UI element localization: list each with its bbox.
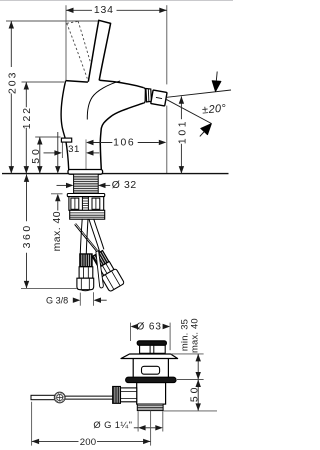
faucet centreline extension (x=86): [85, 139, 87, 173]
tailpiece thread G1 1/4: [137, 404, 163, 411]
dim 101: [177, 96, 188, 173]
waste valve body: [137, 383, 166, 405]
svg-text:203: 203: [7, 71, 18, 94]
dim 31: [44, 144, 100, 156]
pop-up pull rod: [75, 223, 104, 288]
hose coupler block: [70, 210, 105, 219]
svg-text:50: 50: [189, 385, 200, 403]
hose 1 hex nut: [79, 267, 93, 278]
washer plate: [67, 194, 104, 197]
spout top edge: [99, 80, 143, 87]
swivel arrow upper: [212, 72, 221, 92]
top edge artifact: [0, 0, 233, 2]
waste plug body: [140, 345, 166, 353]
svg-text:106: 106: [113, 137, 135, 148]
dim max. 40 (deck thickness): [51, 194, 63, 252]
svg-text:G 3/8: G 3/8: [46, 296, 68, 306]
extension line top of dim 203 (y=21): [6, 20, 98, 22]
rod knob: [54, 392, 65, 403]
rod port on valve: [121, 388, 137, 402]
dim 203: [7, 21, 18, 174]
dim max. 40 upper line with deck arrow (x=57.8): [55, 132, 60, 174]
escutcheon base plate: [68, 170, 103, 175]
label ±20°: [202, 102, 227, 116]
threaded shank: [74, 174, 99, 193]
hose 1 crimp sleeve: [80, 254, 93, 267]
dim min.35 / max.40: [171, 318, 204, 379]
overflow window: [142, 366, 160, 374]
supply hose 1 tube: [80, 219, 88, 254]
waste neck: [133, 359, 168, 378]
extension line left of dim 134 (x=66): [65, 5, 67, 80]
swivel axis line upper: [167, 90, 231, 97]
dim 134: [66, 5, 167, 16]
supply hose 2 tube: [89, 219, 104, 252]
hose 2 connector (tilted): [90, 249, 125, 292]
dim G 3/8 (hose thread): [46, 292, 107, 306]
dim 50: [31, 137, 43, 174]
dim 122: [22, 82, 33, 174]
mounting nut: [69, 197, 104, 211]
spout underside / column right edge: [100, 103, 143, 169]
aerator block: [151, 90, 167, 106]
extension line top of dim 50 (y=137): [35, 136, 60, 138]
swivel arrow lower: [200, 124, 212, 137]
svg-text:101: 101: [177, 119, 188, 144]
svg-text:122: 122: [22, 106, 33, 129]
spout joint ring: [146, 89, 152, 102]
dim Ø G 1 1/4: [93, 411, 162, 431]
svg-text:max. 40: max. 40: [188, 318, 199, 353]
svg-text:±20°: ±20°: [202, 102, 227, 116]
waste plug cap: [137, 341, 166, 345]
svg-text:31: 31: [68, 144, 80, 155]
body-spout crease: [87, 81, 120, 120]
svg-text:Ø 32: Ø 32: [112, 180, 137, 191]
handle lever: [88, 20, 110, 81]
outlet ledge on column: [61, 138, 71, 142]
faucet body top edge: [66, 81, 88, 83]
sealing collar: [126, 377, 177, 382]
dim 106: [86, 137, 166, 148]
svg-text:Ø 63: Ø 63: [137, 322, 162, 333]
dim 50 (waste): [164, 380, 218, 411]
waste flange: [121, 354, 178, 359]
rod to valve: [65, 396, 113, 399]
svg-text:max. 40: max. 40: [52, 211, 63, 251]
spout end face: [143, 88, 145, 103]
dim Ø32: [57, 180, 137, 191]
faucet column left edge: [61, 81, 69, 170]
svg-text:200: 200: [80, 437, 97, 448]
svg-text:134: 134: [94, 5, 114, 16]
svg-text:Ø G 1¼": Ø G 1¼": [93, 419, 132, 430]
extension line right of dim 134 / aerator tip (x=166.8): [166, 5, 168, 173]
swivel axis line lower: [167, 100, 212, 124]
svg-text:50: 50: [31, 146, 42, 164]
dim Ø63 extension lines: [131, 323, 171, 351]
hose 1 end connector G3/8: [77, 278, 94, 291]
svg-text:360: 360: [22, 223, 33, 248]
dim 200: [32, 402, 151, 448]
horizontal pull rod: [31, 395, 56, 399]
dim Ø63: [131, 322, 171, 333]
handle (ghost position, dashed): [67, 21, 95, 78]
extension line dim 31 left (x=62.4): [61, 143, 63, 158]
dim 360 (hose length): [21, 174, 77, 288]
knurled rod bushing: [113, 386, 121, 403]
extension line top of dim 122 (y=82): [22, 81, 65, 83]
deck line: [2, 173, 229, 175]
